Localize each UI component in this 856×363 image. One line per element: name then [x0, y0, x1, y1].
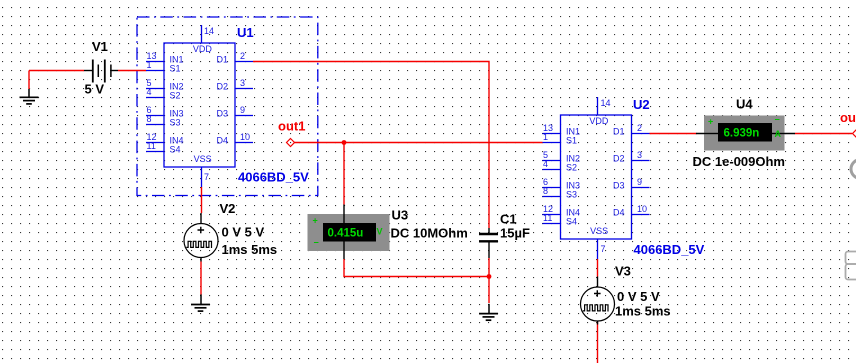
svg-text:−: −	[314, 238, 319, 248]
svg-text:1: 1	[543, 132, 548, 142]
svg-text:7: 7	[204, 172, 209, 182]
svg-text:out1: out1	[278, 119, 305, 134]
svg-text:1ms 5ms: 1ms 5ms	[222, 242, 278, 257]
svg-text:2: 2	[637, 123, 642, 133]
svg-text:A: A	[775, 129, 782, 139]
svg-text:D3: D3	[613, 181, 625, 191]
svg-text:14: 14	[601, 98, 611, 108]
svg-text:DC 1e-009Ohm: DC 1e-009Ohm	[693, 154, 785, 169]
svg-text:10: 10	[637, 204, 647, 214]
svg-text:D1: D1	[217, 55, 229, 65]
svg-text:DC 10MOhm: DC 10MOhm	[391, 226, 468, 241]
svg-text:S3: S3	[170, 118, 181, 128]
svg-text:1ms 5ms: 1ms 5ms	[615, 304, 671, 319]
svg-text:D2: D2	[613, 154, 625, 164]
svg-text:0 V 5 V: 0 V 5 V	[617, 289, 660, 304]
svg-text:D3: D3	[217, 109, 229, 119]
svg-text:1: 1	[147, 60, 152, 70]
svg-text:D1: D1	[613, 127, 625, 137]
svg-text:U2: U2	[633, 97, 650, 112]
svg-text:V3: V3	[615, 264, 631, 279]
svg-text:2: 2	[240, 51, 245, 61]
svg-text:V1: V1	[92, 39, 108, 54]
svg-text:V: V	[377, 227, 383, 237]
svg-text:8: 8	[543, 186, 548, 196]
svg-text:10: 10	[240, 132, 250, 142]
svg-text:D2: D2	[217, 82, 229, 92]
svg-text:C1: C1	[500, 212, 517, 227]
svg-text:+: +	[313, 216, 318, 226]
svg-text:VDD: VDD	[193, 44, 213, 54]
svg-text:−: −	[775, 115, 780, 125]
svg-text:V2: V2	[220, 201, 236, 216]
svg-text:14: 14	[204, 26, 214, 36]
svg-text:VSS: VSS	[590, 226, 608, 236]
svg-text:S3: S3	[566, 190, 577, 200]
svg-text:S1: S1	[566, 136, 577, 146]
svg-text:5 V: 5 V	[85, 82, 105, 97]
svg-text:4066BD_5V: 4066BD_5V	[634, 242, 705, 257]
svg-text:D4: D4	[613, 208, 625, 218]
svg-text:11: 11	[543, 213, 552, 223]
svg-text:S4: S4	[170, 145, 181, 155]
svg-text:S2: S2	[566, 163, 577, 173]
svg-text:11: 11	[147, 141, 156, 151]
svg-text:7: 7	[601, 244, 606, 254]
svg-text:S4: S4	[566, 217, 577, 227]
svg-text:U4: U4	[736, 97, 753, 112]
svg-text:VDD: VDD	[589, 116, 609, 126]
svg-text:0.415u: 0.415u	[328, 227, 364, 239]
svg-text:U3: U3	[392, 207, 409, 222]
svg-text:6.939n: 6.939n	[724, 127, 760, 139]
svg-text:4: 4	[543, 159, 548, 169]
svg-text:ou: ou	[840, 110, 856, 125]
svg-text:15µF: 15µF	[500, 226, 530, 241]
svg-text:3: 3	[637, 150, 642, 160]
svg-text:8: 8	[147, 114, 152, 124]
svg-text:U1: U1	[237, 25, 254, 40]
svg-text:S2: S2	[170, 91, 181, 101]
svg-text:4: 4	[147, 87, 152, 97]
svg-text:S1: S1	[170, 64, 181, 74]
svg-text:9: 9	[637, 177, 642, 187]
svg-text:9: 9	[240, 105, 245, 115]
svg-text:0 V 5 V: 0 V 5 V	[222, 225, 265, 240]
svg-text:4066BD_5V: 4066BD_5V	[238, 170, 309, 185]
svg-text:3: 3	[240, 78, 245, 88]
svg-text:+: +	[708, 117, 713, 127]
svg-text:D4: D4	[217, 136, 229, 146]
svg-text:VSS: VSS	[194, 154, 212, 164]
